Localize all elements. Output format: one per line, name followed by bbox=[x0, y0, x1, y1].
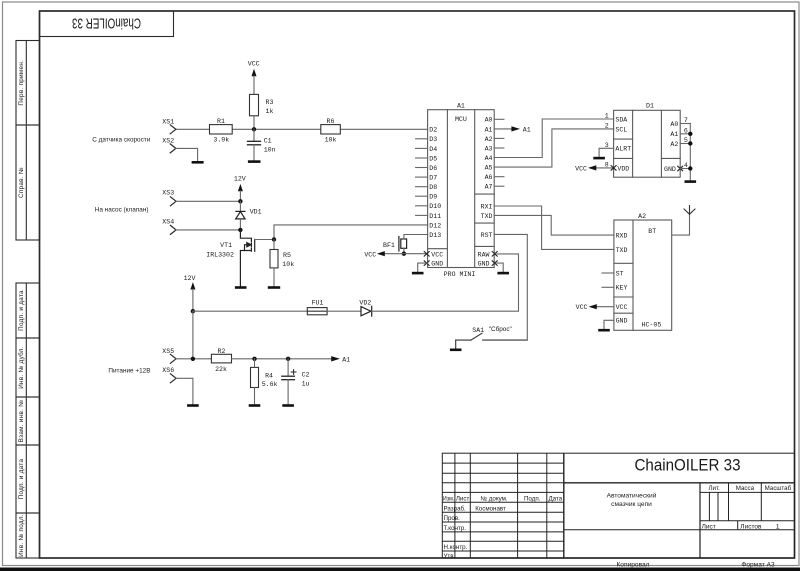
stub D1 pin4 GND bbox=[680, 168, 690, 170]
diode VD2 bbox=[361, 306, 372, 316]
svg-text:Подп. и дата: Подп. и дата bbox=[18, 458, 25, 499]
resistor R2 bbox=[211, 354, 231, 363]
top rotated title text ChainOILER 33 bbox=[72, 14, 141, 31]
svg-text:Разраб.: Разраб. bbox=[444, 505, 467, 512]
wire D1 address bus to ground bbox=[689, 124, 691, 181]
wire VT1 gate to R5 node bbox=[255, 239, 274, 241]
svg-text:С датчика скорости: С датчика скорости bbox=[92, 136, 150, 143]
node XS5/12V rail bbox=[191, 357, 195, 361]
power 12V arrow (supply rail) bbox=[184, 275, 196, 311]
resistor R4 bbox=[251, 367, 259, 387]
wire VCC arrow to MCU VCC pin bbox=[385, 253, 428, 255]
svg-text:1: 1 bbox=[776, 523, 780, 530]
svg-text:D11: D11 bbox=[429, 213, 441, 220]
svg-text:VCC: VCC bbox=[575, 165, 587, 172]
wire XS5 to R2 bbox=[176, 358, 211, 360]
svg-text:Космонавт: Космонавт bbox=[475, 505, 506, 512]
svg-text:ChainOILER 33: ChainOILER 33 bbox=[635, 456, 741, 475]
wire R3 to node bbox=[253, 116, 255, 130]
ground (R5) bbox=[268, 286, 280, 289]
svg-text:ChainOILER 33: ChainOILER 33 bbox=[72, 14, 141, 31]
svg-text:4: 4 bbox=[684, 162, 688, 169]
stub MCU A7 bbox=[494, 185, 504, 187]
svg-text:RXD: RXD bbox=[616, 233, 628, 240]
label Питание +12В bbox=[108, 367, 150, 374]
svg-text:XS3: XS3 bbox=[162, 190, 174, 197]
svg-text:22k: 22k bbox=[215, 366, 227, 373]
svg-text:5: 5 bbox=[684, 137, 688, 144]
ground (MCU left) bbox=[412, 272, 424, 275]
D1 left pin labels bbox=[615, 116, 631, 172]
pin cross MCU VCC bbox=[424, 252, 429, 257]
wire R2 to A1 arrow bbox=[232, 358, 332, 360]
wire C2 to ground bbox=[287, 380, 289, 405]
svg-text:GND: GND bbox=[431, 261, 443, 268]
wire R6 to MCU D2 bbox=[340, 128, 427, 130]
node R4 top bbox=[252, 357, 256, 361]
svg-text:Изм.: Изм. bbox=[443, 495, 455, 502]
power VCC arrow (R3 top) bbox=[248, 61, 260, 95]
buzzer BF1 bbox=[399, 237, 407, 252]
wire FU1 to VD2 bbox=[327, 310, 361, 312]
svg-text:SCL: SCL bbox=[615, 126, 627, 133]
svg-text:A5: A5 bbox=[485, 165, 493, 172]
svg-text:GND: GND bbox=[478, 261, 490, 268]
svg-text:D4: D4 bbox=[429, 146, 437, 153]
wire R4 to ground bbox=[254, 388, 256, 405]
connector XS1 bbox=[170, 125, 176, 134]
left margin column boxes bbox=[16, 41, 40, 559]
svg-text:D10: D10 bbox=[429, 203, 441, 210]
svg-text:A6: A6 bbox=[485, 174, 493, 181]
svg-text:№ докум.: № докум. bbox=[480, 495, 507, 502]
node gate/R5 bbox=[272, 237, 276, 241]
svg-text:1u: 1u bbox=[302, 380, 310, 387]
ground (SA1) bbox=[450, 349, 462, 352]
wire node to R4 bbox=[254, 359, 256, 368]
svg-text:10k: 10k bbox=[282, 261, 294, 268]
svg-text:SA1: SA1 bbox=[472, 327, 484, 334]
right part bbox=[564, 482, 795, 484]
svg-text:Лист: Лист bbox=[702, 523, 716, 530]
resistor R6 bbox=[321, 125, 341, 134]
svg-text:TXD: TXD bbox=[481, 213, 493, 220]
wire A2 GND to ground bbox=[604, 320, 614, 329]
label На насос (клапан) bbox=[95, 207, 149, 214]
wire R1 to R6 (node with R3/C1) bbox=[232, 128, 321, 130]
top rotated document-number box bbox=[40, 11, 174, 37]
svg-text:Питание +12В: Питание +12В bbox=[108, 367, 150, 374]
vertical columns left part bbox=[454, 453, 456, 558]
svg-text:10k: 10k bbox=[325, 137, 337, 144]
wire MCU D13 to BF1 bbox=[404, 235, 428, 240]
ground (XS2) bbox=[192, 161, 204, 164]
svg-text:12V: 12V bbox=[234, 176, 246, 183]
wire node to C2 bbox=[287, 359, 289, 376]
svg-text:VCC: VCC bbox=[616, 304, 628, 311]
node C2 top bbox=[286, 357, 290, 361]
svg-text:RXI: RXI bbox=[481, 203, 493, 210]
wire MCU TXD to A2 RXD bbox=[494, 215, 614, 235]
node R1/R3/C1/R6 junction bbox=[252, 127, 256, 131]
svg-text:XS4: XS4 bbox=[162, 219, 174, 226]
resistor R1 bbox=[210, 125, 233, 134]
diode VD1 bbox=[236, 211, 245, 219]
svg-text:A2: A2 bbox=[638, 213, 646, 220]
svg-text:Т.контр.: Т.контр. bbox=[444, 525, 467, 532]
ground (C2) bbox=[282, 404, 294, 407]
node XS3/VD1 bbox=[238, 199, 242, 203]
svg-text:XS5: XS5 bbox=[162, 348, 174, 355]
A2 left pin labels bbox=[616, 233, 628, 325]
svg-text:Лит.: Лит. bbox=[709, 485, 721, 492]
svg-text:C2: C2 bbox=[302, 372, 310, 379]
wire node to C1 bbox=[253, 129, 255, 141]
stub D1 pin7 A0 bbox=[680, 123, 690, 125]
svg-text:SDA: SDA bbox=[615, 116, 627, 123]
wire node to FU1 bbox=[193, 310, 307, 312]
ground (C1) bbox=[248, 160, 261, 163]
wire MCU GND left to ground bbox=[418, 263, 428, 272]
svg-text:2: 2 bbox=[605, 123, 609, 130]
connector XS2 bbox=[170, 144, 176, 153]
wire node to R5 bbox=[273, 240, 275, 250]
stub A2 KEY bbox=[602, 286, 614, 288]
svg-text:Масштаб: Масштаб bbox=[765, 485, 792, 492]
connector XS5 bbox=[170, 354, 176, 363]
svg-text:A2: A2 bbox=[485, 136, 493, 143]
svg-text:A3: A3 bbox=[485, 145, 493, 152]
node BF1/VCC bbox=[402, 252, 406, 256]
wire MCU RXI to A2 TXD bbox=[494, 206, 614, 249]
label С датчика скорости bbox=[92, 136, 150, 143]
svg-text:PRO MINI: PRO MINI bbox=[444, 271, 476, 278]
svg-text:На насос (клапан): На насос (клапан) bbox=[95, 207, 149, 214]
pin cross D1 GND bbox=[678, 166, 683, 171]
wire BF1 to VCC node bbox=[403, 248, 405, 253]
svg-text:A0: A0 bbox=[485, 117, 493, 124]
net arrow A1 (MCU A1 pin) bbox=[494, 126, 531, 133]
svg-text:7: 7 bbox=[684, 117, 688, 124]
IC D1 I2C ADC bbox=[614, 110, 681, 177]
wire XS4 to node bbox=[176, 229, 240, 231]
capacitor C1 bbox=[248, 141, 261, 145]
svg-text:HC-05: HC-05 bbox=[642, 321, 662, 328]
wire A2 to antenna bbox=[672, 214, 690, 235]
power VCC arrow (A2) bbox=[576, 304, 614, 311]
svg-text:XS1: XS1 bbox=[162, 118, 174, 125]
node XS4/VT1 drain bbox=[238, 228, 242, 232]
IC A2 BT HC-05 bbox=[614, 220, 672, 330]
wire XS2 to ground bbox=[176, 148, 198, 161]
pin number 6 bbox=[684, 127, 688, 134]
horizontal rows left part bbox=[442, 462, 564, 464]
ground (D1 ALRT) bbox=[593, 157, 605, 160]
wire MCU GND right to ground bbox=[497, 263, 503, 272]
svg-text:R5: R5 bbox=[283, 252, 291, 259]
ground (XS6) bbox=[187, 404, 199, 407]
net arrow A1 (divider output) bbox=[331, 356, 350, 363]
scan bottom black bar bbox=[0, 568, 800, 571]
left margin rotated labels bbox=[17, 60, 25, 557]
svg-text:12V: 12V bbox=[184, 275, 196, 282]
resistor R5 bbox=[270, 250, 278, 268]
svg-text:D5: D5 bbox=[429, 155, 437, 162]
switch SA1 Сброс bbox=[456, 333, 528, 348]
svg-text:"Сброс": "Сброс" bbox=[489, 325, 512, 333]
pin number 5 bbox=[684, 137, 688, 144]
svg-text:ALRT: ALRT bbox=[615, 146, 631, 153]
ground (MCU right) bbox=[497, 272, 509, 275]
svg-text:Масса: Масса bbox=[736, 485, 755, 492]
wire C1 to ground bbox=[253, 145, 255, 161]
svg-text:Дата: Дата bbox=[548, 495, 562, 502]
connector XS3 bbox=[170, 197, 176, 206]
svg-text:Перв. примен.: Перв. примен. bbox=[18, 60, 25, 106]
svg-text:Н.контр.: Н.контр. bbox=[444, 544, 468, 551]
stub MCU A2 bbox=[494, 137, 504, 139]
svg-text:A7: A7 bbox=[485, 184, 493, 191]
MCU left pin labels bbox=[429, 127, 443, 268]
svg-text:IRL3302: IRL3302 bbox=[206, 251, 234, 258]
svg-text:VCC: VCC bbox=[248, 61, 260, 68]
svg-text:XS2: XS2 bbox=[162, 138, 174, 145]
svg-text:A1: A1 bbox=[523, 126, 531, 133]
svg-text:A0: A0 bbox=[670, 121, 678, 128]
svg-text:смазчик цепи: смазчик цепи bbox=[611, 501, 652, 508]
svg-text:R3: R3 bbox=[266, 99, 274, 106]
ground (A2) bbox=[598, 329, 610, 332]
wire VD2 to MCU RAW bbox=[372, 254, 519, 311]
connector XS4 bbox=[170, 225, 176, 234]
svg-text:R1: R1 bbox=[217, 118, 225, 125]
svg-text:D3: D3 bbox=[429, 136, 437, 143]
svg-text:A1: A1 bbox=[485, 126, 493, 133]
pin cross D1 VDD bbox=[611, 166, 616, 171]
wire SA1 to MCU RST bbox=[494, 234, 527, 340]
svg-text:D13: D13 bbox=[429, 232, 441, 239]
stub MCU A0 bbox=[494, 118, 504, 120]
wire R5 to ground bbox=[273, 268, 275, 286]
node D1 pin4 bbox=[688, 166, 692, 170]
svg-text:A1: A1 bbox=[457, 103, 465, 110]
D1 right pin labels bbox=[664, 121, 678, 173]
svg-text:VD1: VD1 bbox=[250, 208, 262, 215]
svg-text:3.9k: 3.9k bbox=[213, 137, 229, 144]
stub MCU A3 bbox=[494, 147, 504, 149]
wire MCU A5 to D1 SCL bbox=[494, 129, 613, 167]
svg-text:BT: BT bbox=[648, 228, 656, 235]
pin number 8 bbox=[605, 161, 609, 168]
stub D1 pin6 A1 bbox=[680, 133, 690, 135]
svg-text:Утв.: Утв. bbox=[444, 553, 456, 560]
svg-text:Автоматический: Автоматический bbox=[607, 491, 657, 499]
svg-text:KEY: KEY bbox=[616, 285, 628, 292]
transistor VT1 IRL3302 bbox=[240, 230, 254, 286]
wire XS3 to 12V node bbox=[176, 200, 240, 202]
wire XS1 to R1 bbox=[176, 128, 210, 130]
title block grid bbox=[442, 453, 794, 558]
wire node to VD1 cathode bbox=[239, 201, 241, 211]
svg-text:D9: D9 bbox=[429, 194, 437, 201]
wire 12V rail down to XS5 node bbox=[192, 311, 194, 359]
svg-text:VT1: VT1 bbox=[220, 242, 232, 249]
svg-text:A4: A4 bbox=[485, 155, 493, 162]
pin stubs D3-D11 bbox=[416, 139, 428, 216]
svg-text:D7: D7 bbox=[429, 175, 437, 182]
ground (D1 bus) bbox=[685, 180, 697, 183]
svg-text:VD2: VD2 bbox=[359, 300, 371, 307]
svg-text:D6: D6 bbox=[429, 165, 437, 172]
svg-text:ST: ST bbox=[616, 270, 624, 277]
pin number 1 bbox=[605, 113, 609, 120]
svg-text:VCC: VCC bbox=[576, 304, 588, 311]
svg-text:6: 6 bbox=[684, 127, 688, 134]
MCU right pin labels bbox=[478, 117, 493, 268]
svg-text:Взам. инв. №: Взам. инв. № bbox=[18, 400, 25, 443]
wire XS6 to ground bbox=[176, 378, 193, 404]
svg-text:BF1: BF1 bbox=[383, 242, 395, 249]
svg-text:A2: A2 bbox=[670, 141, 678, 148]
svg-text:D12: D12 bbox=[429, 222, 441, 229]
pin cross MCU GND right bbox=[492, 261, 497, 266]
wire gate node to MCU D12 bbox=[274, 225, 428, 240]
svg-text:5.6k: 5.6k bbox=[262, 381, 278, 388]
svg-text:MCU: MCU bbox=[455, 116, 467, 123]
svg-text:D2: D2 bbox=[429, 127, 437, 134]
svg-text:Инв. № дубл.: Инв. № дубл. bbox=[17, 346, 25, 389]
stub A2 ST bbox=[602, 272, 614, 274]
svg-text:Инв. № подл.: Инв. № подл. bbox=[18, 514, 25, 557]
svg-text:VCC: VCC bbox=[364, 251, 376, 258]
svg-text:Справ. №: Справ. № bbox=[18, 167, 25, 198]
svg-text:A1: A1 bbox=[670, 131, 678, 138]
svg-text:R2: R2 bbox=[217, 348, 225, 355]
wire VD1 anode to XS4 node bbox=[239, 219, 241, 230]
svg-text:Лист: Лист bbox=[456, 495, 470, 502]
pin number 7 bbox=[684, 117, 688, 124]
power VCC arrow (D1 VDD) bbox=[575, 165, 613, 172]
wire D1 ALRT to ground bbox=[599, 148, 614, 157]
ground (VT1 source) bbox=[235, 286, 247, 289]
svg-text:Подп.: Подп. bbox=[524, 495, 541, 502]
svg-text:GND: GND bbox=[664, 166, 676, 173]
svg-text:A1: A1 bbox=[342, 356, 350, 363]
svg-text:1: 1 bbox=[605, 113, 609, 120]
svg-text:10n: 10n bbox=[264, 146, 276, 153]
svg-text:GND: GND bbox=[616, 318, 628, 325]
power 12V arrow (valve rail) bbox=[234, 176, 246, 202]
stub MCU A6 bbox=[494, 176, 504, 178]
power VCC arrow (MCU) bbox=[364, 251, 384, 258]
connector XS6 bbox=[170, 374, 176, 383]
svg-text:D8: D8 bbox=[429, 184, 437, 191]
antenna W1 bbox=[684, 206, 695, 215]
title block texts bbox=[443, 456, 792, 569]
pin number 3 bbox=[605, 142, 609, 149]
svg-text:C1: C1 bbox=[264, 138, 272, 145]
svg-text:Пров.: Пров. bbox=[444, 515, 461, 522]
svg-text:RST: RST bbox=[481, 232, 493, 239]
pin number 4 bbox=[684, 162, 688, 169]
wire MCU A4 to D1 SDA bbox=[494, 119, 613, 158]
svg-text:Подп. и дата: Подп. и дата bbox=[18, 290, 25, 331]
svg-text:VCC: VCC bbox=[431, 251, 443, 258]
svg-text:D1: D1 bbox=[646, 102, 654, 109]
ground (R4) bbox=[249, 404, 261, 407]
svg-text:Формат А3: Формат А3 bbox=[741, 561, 775, 568]
svg-text:R4: R4 bbox=[265, 372, 273, 379]
node D1 pin5 bbox=[688, 141, 692, 145]
resistor R3 bbox=[250, 94, 259, 115]
svg-text:TXD: TXD bbox=[616, 247, 628, 254]
svg-text:FU1: FU1 bbox=[312, 300, 324, 307]
svg-text:Копировал: Копировал bbox=[616, 561, 649, 568]
node 12V/FU1 bbox=[191, 309, 195, 313]
stub D1 pin5 A2 bbox=[680, 143, 690, 145]
svg-text:1k: 1k bbox=[266, 108, 274, 115]
fuse FU1 bbox=[307, 308, 327, 315]
svg-text:RAW: RAW bbox=[478, 251, 490, 258]
IC A1 MCU PRO MINI bbox=[428, 110, 495, 268]
svg-text:Листов: Листов bbox=[740, 523, 762, 530]
pin number 2 bbox=[605, 123, 609, 130]
pin cross MCU RAW bbox=[492, 252, 497, 257]
svg-text:R6: R6 bbox=[327, 118, 335, 125]
capacitor C2 polarized bbox=[282, 376, 295, 380]
node D1 pin6 bbox=[688, 132, 692, 136]
svg-text:VDD: VDD bbox=[617, 165, 629, 172]
svg-text:XS6: XS6 bbox=[162, 367, 174, 374]
pin cross MCU GND left bbox=[424, 261, 429, 266]
